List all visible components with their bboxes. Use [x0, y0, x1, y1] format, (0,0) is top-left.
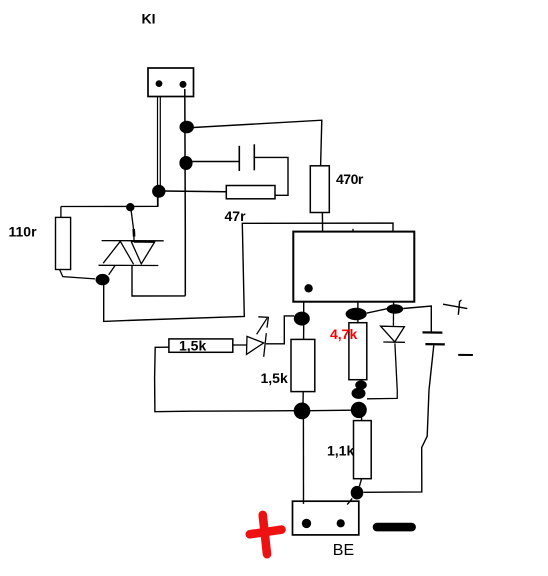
svg-text:1,5k: 1,5k	[179, 337, 206, 353]
wire dot5 to controller box top	[104, 223, 393, 321]
wire 1,5k horizontal to bottom rail	[155, 347, 294, 412]
junction dot1	[180, 121, 194, 134]
capacitor C1 left lead	[193, 161, 240, 163]
capacitor C3	[423, 332, 445, 344]
LED arrow	[257, 317, 269, 335]
capacitor C1	[239, 144, 254, 171]
wire dot3 to 47r	[163, 190, 226, 193]
junction blob C	[387, 304, 404, 313]
resistor 110r	[56, 217, 71, 269]
red cross mark	[250, 515, 282, 554]
battery BE box	[293, 501, 359, 535]
resistor 47r	[226, 186, 275, 199]
label BE	[333, 542, 354, 559]
label 470r	[336, 171, 364, 187]
svg-text:BE: BE	[333, 542, 354, 559]
wire capacitor C1 right lead to 47r	[255, 157, 289, 195]
wire 1,5k vertical to blob7	[302, 392, 304, 404]
junction dot2	[179, 156, 192, 170]
wire 470r bottom lead	[321, 213, 323, 232]
junction dot4 (gate node)	[126, 203, 134, 211]
resistor 1,5k horizontal	[169, 339, 233, 352]
label 47r	[225, 208, 247, 224]
triac	[99, 241, 164, 266]
junction blobs below 4,7k	[352, 380, 367, 399]
black dash mark	[377, 523, 412, 532]
label 110r	[9, 224, 38, 240]
relay KI body	[148, 68, 194, 97]
resistor 470r	[310, 166, 329, 213]
wire capacitor C3 to BE node	[364, 345, 434, 492]
svg-text:KI: KI	[142, 11, 156, 27]
wire gate to triac	[131, 211, 134, 240]
label 1,5k horizontal	[179, 337, 206, 353]
wire blob8 to 1,1k	[361, 418, 363, 421]
junction blob8	[351, 402, 367, 418]
resistor 1,1k	[354, 421, 372, 479]
wire blob A to 1,5k vertical	[303, 325, 305, 339]
svg-text:1,5k: 1,5k	[261, 370, 288, 386]
junction dot3	[152, 185, 165, 198]
tick on U1 top edge	[352, 229, 354, 232]
wire blob9 to BE box	[347, 499, 352, 505]
label KI	[142, 11, 156, 27]
label 1,5k vertical	[261, 370, 288, 386]
wire dot3 down to gate rail	[157, 197, 159, 207]
pin B stub	[357, 302, 359, 309]
wire 1,1k to blob9	[359, 479, 361, 487]
wire blob7 down to BE box	[302, 417, 304, 504]
wire 110r bottom lead	[60, 270, 95, 279]
wire blob B to 4,7k	[357, 320, 359, 323]
junction dot5	[96, 274, 110, 285]
resistor 4,7k	[349, 323, 367, 380]
wire gate rail horizontal	[61, 205, 158, 207]
junction blob A	[294, 312, 310, 326]
wire blob7 to blob8	[310, 409, 351, 412]
junction blob9	[351, 486, 364, 500]
wire dot5 to triac MT2	[109, 265, 116, 275]
pin C stub	[393, 302, 395, 306]
svg-text:4,7k: 4,7k	[330, 326, 357, 342]
wire triac MT1 down to right pin line	[132, 266, 185, 297]
svg-text:1,1k: 1,1k	[327, 442, 354, 458]
wire dot1 to resistor 470r top	[194, 120, 322, 166]
wire 110r top lead	[60, 207, 62, 218]
wire relay right pin vertical	[184, 89, 187, 296]
resistor 1,5k vertical	[291, 339, 315, 391]
label 4,7k (red)	[330, 326, 357, 342]
label 1,1k	[327, 442, 354, 458]
junction blob7	[294, 403, 311, 420]
minus mark	[458, 354, 473, 356]
dot inside U1	[304, 284, 312, 292]
junction blob B	[346, 308, 367, 320]
wire blob A to LED cathode	[266, 316, 294, 344]
IC U1 box	[293, 232, 414, 302]
wire relay left pin (double line)	[158, 97, 161, 207]
wire blob B to blob C	[367, 309, 387, 313]
svg-text:110r: 110r	[9, 224, 38, 240]
LED D2	[233, 333, 266, 357]
diode D1	[367, 314, 405, 399]
pin A stub	[303, 302, 305, 312]
svg-text:47r: 47r	[225, 208, 247, 224]
svg-text:470r: 470r	[336, 171, 364, 187]
X mark (switch)	[443, 300, 467, 315]
wire blob C to capacitor C3	[403, 306, 431, 332]
